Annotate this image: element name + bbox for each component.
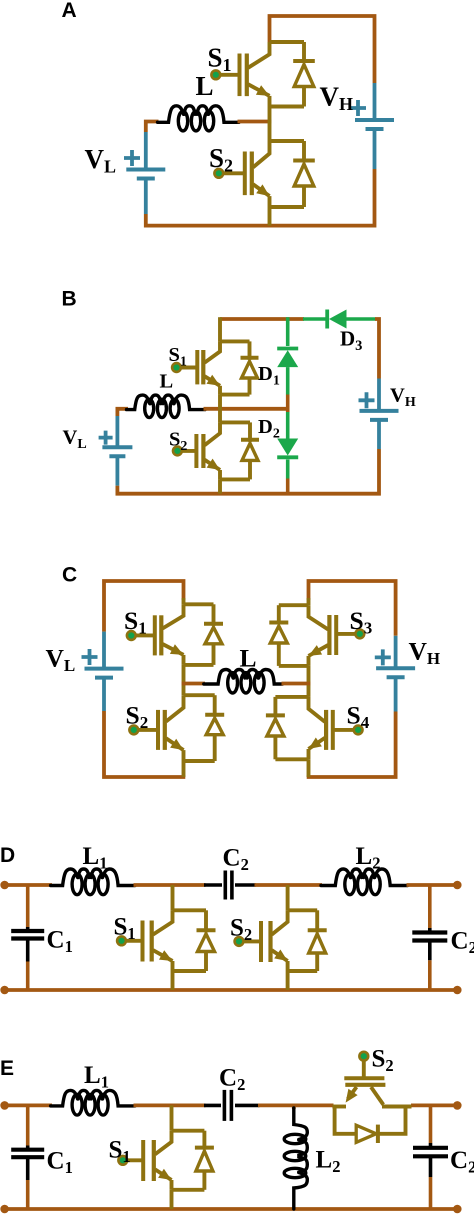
inductor L1 (panel D) — [51, 869, 78, 886]
wire emitter S2 to bottom rail (panel B) — [218, 479, 222, 493]
diode D2 green (panel B) — [277, 439, 298, 456]
body diode of S4 (panel C) — [273, 697, 277, 718]
capacitor C2 shunt right (panel D) — [428, 885, 432, 928]
wire mid rail right (panel B) — [204, 407, 290, 411]
wire top rail segment 4 (panel D) — [407, 883, 458, 887]
wire bottom rail (panel B) — [117, 449, 379, 494]
wire top rail segment 2 (panel D) — [134, 883, 206, 887]
inductor L (panel B) — [127, 395, 150, 410]
wire collector S3 (panel C) — [307, 598, 311, 605]
svg-text:L: L — [240, 644, 257, 673]
body diode of S2 (panel B) — [248, 422, 252, 441]
wire top rail segment 3 (panel D) — [255, 883, 323, 887]
svg-text:B: B — [62, 288, 77, 311]
wire emitter S2 to bottom rail (panel D) — [286, 971, 290, 990]
body diode of S1 (panel C) — [212, 604, 216, 626]
transistor S2 IGBT (panel D) — [288, 908, 318, 912]
body diode of S1 (panel E) — [202, 1131, 206, 1150]
transistor S4 IGBT (panel C) — [275, 695, 308, 699]
svg-text:D: D — [0, 844, 15, 867]
battery VH (panel C) — [394, 636, 398, 668]
diode D3 (panel B) — [303, 317, 327, 321]
capacitor C2 shunt right (panel E) — [429, 1105, 433, 1143]
wire node between S1 and S2 (panel B) — [218, 395, 222, 423]
transistor S2 IGBT (panel C) — [184, 693, 215, 697]
inductor L2 vertical (panel E) — [292, 1105, 296, 1109]
svg-text:C: C — [62, 564, 77, 587]
transistor S1 IGBT (panel E) — [172, 1129, 205, 1133]
node terminal bottom-left (panel D) — [0, 986, 9, 995]
wire mid node left stub (panel C) — [182, 682, 205, 686]
wire mid node right stub (panel C) — [282, 682, 311, 686]
body diode of S2 (panel D) — [315, 910, 319, 932]
transistor S1 IGBT (panel D) — [173, 908, 207, 912]
battery VH (panel A) — [373, 83, 377, 120]
capacitor C2 series (panel E) — [204, 1104, 221, 1108]
node terminal bottom-right (panel E) — [453, 1205, 462, 1214]
inductor L1 (panel E) — [51, 1090, 78, 1106]
wire green branch between mid node and D2 (panel B) — [286, 412, 290, 439]
wire collector S1 (panel D) — [171, 885, 175, 910]
wire top rail segment 4 (panel E) — [411, 1104, 457, 1108]
wire collector S1 (panel E) — [170, 1105, 174, 1130]
wire green branch between D1 and mid node (panel B) — [286, 367, 290, 394]
wire emitter S2 to bottom rail (panel C) — [182, 761, 186, 777]
wire emitter S2 to bottom rail (panel A) — [268, 207, 272, 226]
wire left rail (panel A) — [146, 122, 159, 133]
inductor L (panel A) — [158, 106, 184, 123]
node terminal top-right (panel E) — [453, 1101, 462, 1110]
body diode of S1 (panel D) — [204, 910, 208, 932]
transistor S2 IGBT horizontal (panel E) — [344, 1076, 384, 1080]
wire top rail segment 1 (panel D) — [5, 883, 52, 887]
wire bottom rail left (panel C) — [104, 711, 185, 777]
battery VL (panel B) — [116, 416, 120, 447]
wire top rail right corner (panel B) — [375, 319, 379, 379]
wire node between S1 and S2 (panel C) — [182, 665, 186, 695]
wire bottom rail (panel D) — [5, 988, 458, 992]
wire emitter S1 to bottom rail (panel E) — [170, 1190, 174, 1209]
wire bottom rail (panel E) — [5, 1207, 458, 1211]
body diode of S3 (panel C) — [277, 605, 281, 624]
wire top rail segment 2 (panel E) — [134, 1104, 206, 1108]
node terminal bottom-right (panel D) — [453, 986, 462, 995]
svg-text:A: A — [62, 0, 77, 22]
body diode of S2 (panel A) — [302, 141, 306, 163]
svg-text:E: E — [0, 1057, 14, 1080]
node terminal top-left (panel D) — [0, 881, 9, 890]
diode D1 green (panel B) — [277, 347, 298, 351]
wire top rail (panel A) — [270, 16, 375, 83]
capacitor C1 (panel E) — [26, 1105, 30, 1145]
body diode of S2 (panel C) — [213, 695, 217, 717]
transistor S1 IGBT (panel B) — [220, 339, 250, 343]
wire top rail right (panel C) — [309, 581, 396, 636]
node terminal top-left (panel E) — [0, 1101, 9, 1110]
transistor S2 IGBT (panel A) — [270, 139, 305, 143]
node terminal bottom-left (panel E) — [0, 1205, 9, 1214]
inductor L (panel C) — [204, 670, 233, 685]
wire top rail left (panel C) — [104, 581, 184, 632]
capacitor C2 series (panel D) — [204, 883, 222, 887]
inductor L2 (panel D) — [321, 869, 350, 886]
transistor S3 IGBT (panel C) — [279, 603, 309, 607]
wire top rail segment 1 (panel E) — [5, 1104, 52, 1108]
wire node between S3 and S4 (panel C) — [307, 666, 311, 697]
wire emitter S1 to bottom rail (panel D) — [171, 971, 175, 990]
capacitor C1 (panel D) — [26, 885, 30, 927]
antiparallel diode of S2 (panel E) — [335, 1107, 356, 1134]
wire top rail segment 3 (panel E) — [258, 1104, 334, 1108]
transistor S1 IGBT (panel A) — [270, 40, 305, 44]
battery VL (panel A) — [144, 132, 148, 170]
wire green branch lower (panel B) — [286, 460, 290, 479]
wire bottom rail right (panel C) — [307, 712, 396, 778]
battery VL (panel C) — [102, 632, 106, 669]
wire left rail (panel B) — [117, 409, 128, 416]
body diode of S1 (panel B) — [248, 341, 252, 359]
wire collector S1 (panel C) — [182, 598, 186, 604]
battery VH (panel B) — [377, 379, 381, 411]
wire emitter S4 to bottom rail (panel C) — [307, 759, 311, 777]
node terminal top-right (panel D) — [453, 881, 462, 890]
wire mid rail right (panel A) — [238, 120, 272, 124]
transistor S2 IGBT (panel B) — [220, 420, 250, 424]
wire bottom rail (panel A) — [146, 169, 375, 226]
wire top rail orange part (panel B) — [220, 317, 304, 321]
wire collector S1 (panel B) — [218, 317, 222, 341]
wire green branch upper (panel B) — [286, 317, 290, 346]
body diode of S1 (panel A) — [302, 42, 306, 63]
wire node between S1 and S2 (panel A) — [268, 107, 272, 142]
svg-text:L: L — [160, 371, 174, 393]
transistor S1 IGBT (panel C) — [184, 602, 214, 606]
wire collector S2 (panel D) — [286, 885, 290, 910]
